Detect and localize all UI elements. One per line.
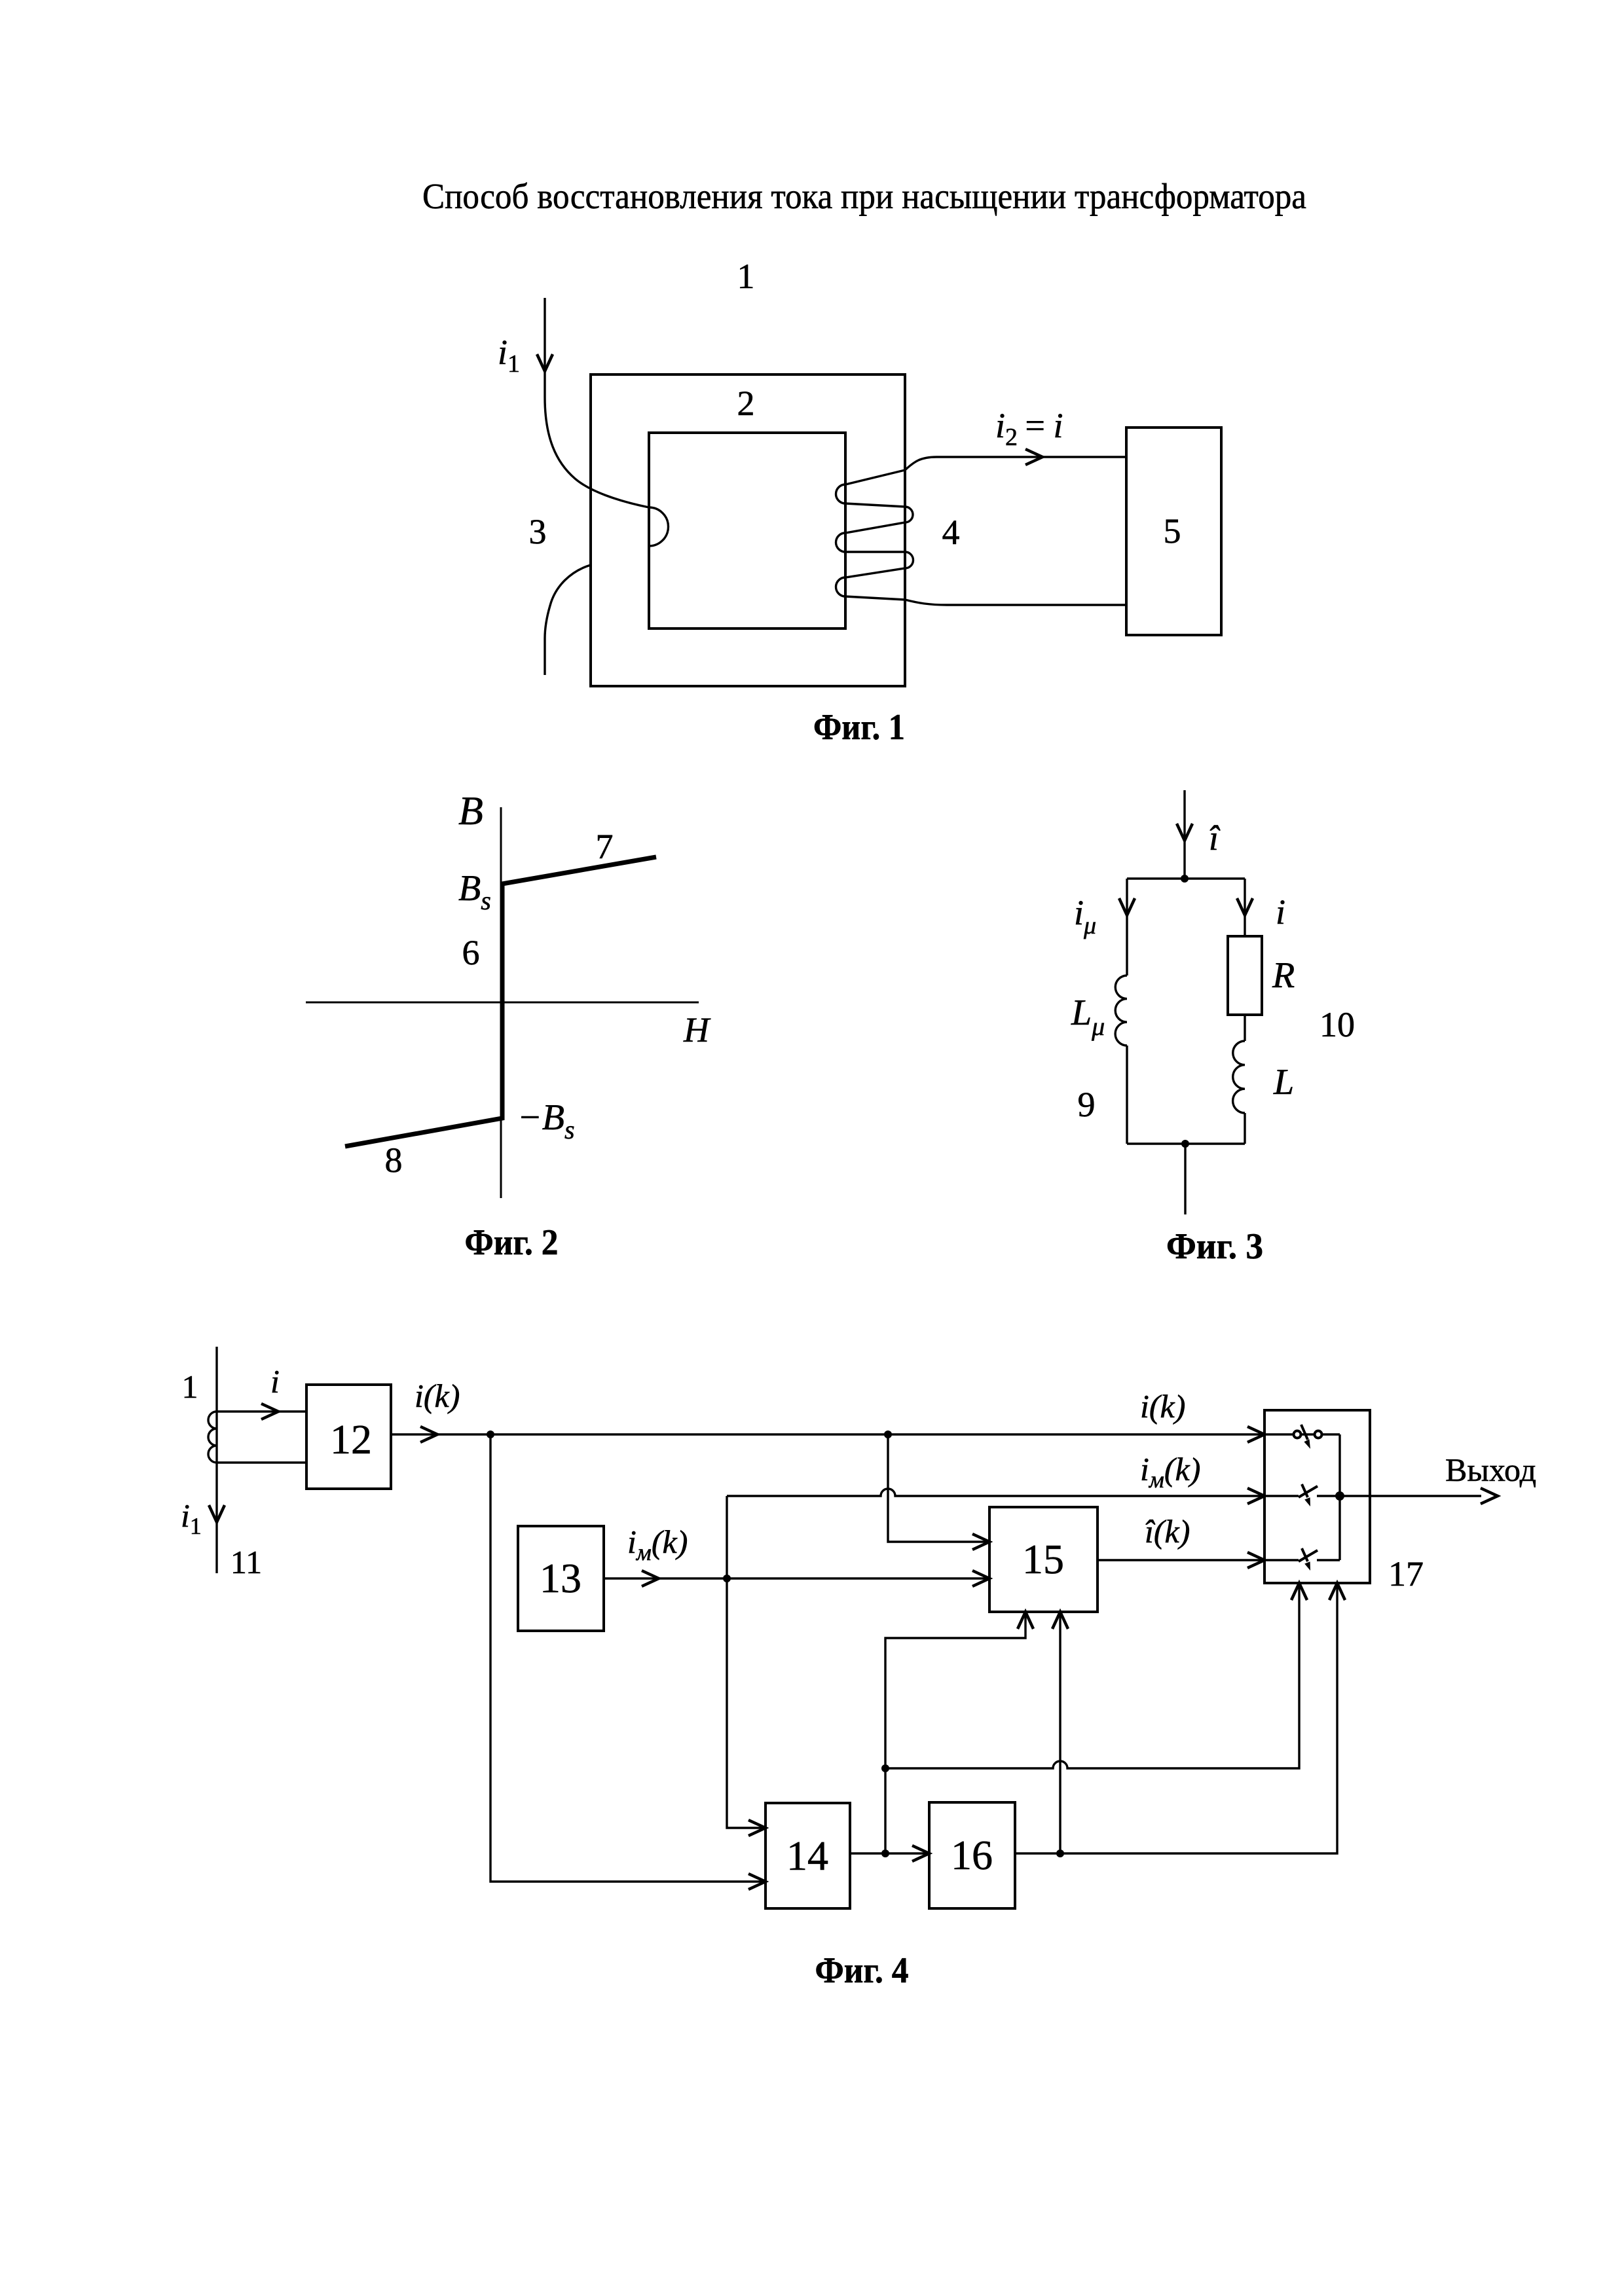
block 14 xyxy=(766,1803,850,1908)
wire coil to block12 bottom xyxy=(217,1461,306,1463)
svg-text:L: L xyxy=(1273,1062,1294,1102)
svg-text:Фиг. 4: Фиг. 4 xyxy=(815,1950,909,1991)
junction node bottom xyxy=(1181,1140,1189,1148)
wire top rail xyxy=(1127,877,1245,879)
svg-text:i1: i1 xyxy=(498,333,520,378)
axis H horizontal xyxy=(306,1002,699,1004)
axis B vertical xyxy=(500,807,502,1198)
switch S3 output xyxy=(1317,1559,1340,1561)
svg-text:4: 4 xyxy=(942,513,960,552)
svg-text:12: 12 xyxy=(330,1416,372,1463)
arrow after 12 xyxy=(420,1427,437,1442)
arrow into 17 top input xyxy=(1247,1427,1264,1442)
junction dot at 1356 xyxy=(884,1430,892,1438)
inductor L-mu (9) xyxy=(1115,975,1127,1046)
block 16 xyxy=(929,1802,1015,1908)
arrow i xyxy=(261,1404,278,1419)
wire vertical 749 down and into 14 lower input xyxy=(490,1434,766,1882)
svg-text:14: 14 xyxy=(786,1832,828,1879)
switch S3 stub xyxy=(1264,1559,1299,1561)
junction dot on vertical 1352 at 2831 xyxy=(881,1850,889,1857)
svg-text:i: i xyxy=(270,1363,280,1400)
wire bottom rail xyxy=(1127,1142,1245,1144)
junction node top xyxy=(1181,875,1189,883)
inductor L xyxy=(1233,1041,1245,1113)
wire Vyhod output xyxy=(1370,1495,1481,1497)
svg-text:Bs: Bs xyxy=(458,868,491,915)
resistor R xyxy=(1228,936,1262,1015)
svg-text:7: 7 xyxy=(596,827,614,866)
arrow into 14 upper input xyxy=(748,1820,766,1836)
arrow into 17 bottom input xyxy=(1247,1552,1264,1568)
arrow current i-mu xyxy=(1119,898,1135,915)
svg-text:2: 2 xyxy=(737,384,755,423)
svg-text:Фиг. 1: Фиг. 1 xyxy=(813,707,905,748)
internal bus of 17 xyxy=(1338,1434,1340,1560)
switch S1 wire xyxy=(1264,1433,1340,1435)
wire top stub xyxy=(1183,790,1185,879)
svg-text:B: B xyxy=(458,789,483,833)
wire 14 output to 16 xyxy=(850,1852,929,1854)
svg-text:R: R xyxy=(1272,955,1295,996)
wire 13 output to 15 lower input xyxy=(604,1577,989,1579)
svg-text:9: 9 xyxy=(1078,1085,1096,1124)
arrow current i xyxy=(1237,898,1253,915)
svg-text:1: 1 xyxy=(737,257,755,296)
winding 11 coil xyxy=(208,1412,217,1463)
junction dot at 749 xyxy=(487,1430,494,1438)
arrow into 17 bottom (right) xyxy=(1329,1583,1345,1600)
svg-text:Фиг. 3: Фиг. 3 xyxy=(1166,1226,1263,1267)
switch S2 stub xyxy=(1264,1495,1299,1497)
svg-text:−Bs: −Bs xyxy=(517,1097,575,1144)
wire coil to block12 top xyxy=(217,1410,306,1412)
switch S1 blade with arrow xyxy=(1301,1425,1308,1440)
wire right branch lower xyxy=(1244,1113,1246,1144)
svg-text:15: 15 xyxy=(1022,1536,1064,1582)
arrow into 15 bottom-right input xyxy=(1052,1612,1068,1629)
arrow on primary current i1 xyxy=(537,354,553,371)
svg-text:13: 13 xyxy=(540,1555,581,1601)
arrow into 16 xyxy=(912,1846,929,1861)
arrow into 15 lower input xyxy=(972,1571,989,1586)
arrow into 15 bottom-left input xyxy=(1018,1612,1033,1629)
wire right branch upper xyxy=(1244,879,1246,936)
switch S3 actuation arrow xyxy=(1302,1548,1308,1561)
svg-text:16: 16 xyxy=(951,1832,993,1878)
transformer core outer rectangle xyxy=(591,374,905,686)
svg-text:î(k): î(k) xyxy=(1145,1513,1190,1550)
arrow into 17 middle input xyxy=(1247,1488,1264,1504)
arrow after 13 xyxy=(642,1571,659,1586)
arrow into 17 bottom (left) xyxy=(1291,1583,1307,1600)
wire left branch lower xyxy=(1126,1046,1128,1144)
arrow Vyhod xyxy=(1481,1488,1498,1504)
arrow current i-hat xyxy=(1177,824,1192,841)
wire left branch upper xyxy=(1126,879,1128,975)
junction dot on bus xyxy=(1335,1491,1344,1501)
wire 16 output right and up into 17 bottom right xyxy=(1015,1583,1337,1853)
svg-text:H: H xyxy=(683,1010,711,1049)
junction dot 13 output xyxy=(723,1575,731,1582)
svg-text:6: 6 xyxy=(462,933,480,972)
switch S2 output xyxy=(1317,1495,1370,1497)
arrow into 15 upper input xyxy=(972,1534,989,1550)
switch S1 contacts xyxy=(1294,1431,1301,1438)
node 1 primary conductor xyxy=(215,1347,217,1573)
svg-text:10: 10 xyxy=(1319,1005,1355,1044)
wire im(k) line to 17 with hop xyxy=(727,1489,1264,1496)
block 17 xyxy=(1264,1410,1370,1583)
svg-text:i(k): i(k) xyxy=(415,1377,460,1414)
svg-text:i1: i1 xyxy=(181,1497,202,1539)
arrow i1 down xyxy=(209,1505,225,1522)
svg-text:iм(k): iм(k) xyxy=(1140,1451,1200,1493)
block 5 (load) xyxy=(1126,428,1221,635)
wire primary conductor lower segment xyxy=(545,565,591,675)
wire 15 output to 17 bottom input xyxy=(1098,1559,1264,1561)
svg-text:5: 5 xyxy=(1164,511,1181,551)
wire bottom stub xyxy=(1184,1144,1186,1214)
wire i(k) main line 12 to 17 xyxy=(391,1433,1264,1435)
svg-text:i2=i: i2=i xyxy=(995,406,1063,451)
junction dot on vertical 1352 at 2701 xyxy=(881,1764,889,1772)
block 13 xyxy=(518,1526,604,1631)
wire primary conductor upper segment xyxy=(545,298,669,546)
svg-text:i: i xyxy=(1276,892,1285,932)
wire between R and L xyxy=(1244,1015,1246,1041)
switch S2 actuation arrow xyxy=(1302,1484,1308,1497)
svg-text:Способ восстановления тока при: Способ восстановления тока при насыщении… xyxy=(422,176,1306,216)
wire horizontal 2701 with hop to 17 bottom left input xyxy=(885,1583,1299,1768)
svg-text:11: 11 xyxy=(231,1544,262,1580)
svg-text:3: 3 xyxy=(529,512,547,551)
arrow i2 on secondary output wire xyxy=(1025,449,1043,465)
block 12 xyxy=(306,1385,391,1489)
junction dot 16 output xyxy=(1056,1850,1064,1857)
svg-text:iм(k): iм(k) xyxy=(627,1523,688,1565)
svg-text:î: î xyxy=(1209,818,1221,858)
svg-text:8: 8 xyxy=(385,1140,403,1180)
svg-text:Выход: Выход xyxy=(1445,1451,1536,1488)
svg-text:17: 17 xyxy=(1388,1554,1424,1594)
arrow into 14 lower input xyxy=(748,1874,766,1889)
transformer core inner rectangle xyxy=(649,433,845,629)
wire vertical 1619 from 16 output junction to 15 bottom-right xyxy=(1059,1612,1061,1853)
switch S2 blade xyxy=(1299,1486,1318,1497)
svg-text:Lμ: Lμ xyxy=(1071,993,1105,1041)
svg-text:Фиг. 2: Фиг. 2 xyxy=(465,1222,559,1263)
secondary winding 4 with connecting wires xyxy=(836,457,1127,605)
svg-text:i(k): i(k) xyxy=(1140,1388,1185,1425)
wire from 14-16 junction up into 15 bottom-left xyxy=(885,1612,1025,1853)
switch S3 blade xyxy=(1299,1550,1318,1561)
svg-text:iμ: iμ xyxy=(1074,893,1096,939)
wire vertical 1356 to 15 upper input xyxy=(888,1434,989,1542)
svg-text:1: 1 xyxy=(182,1368,198,1405)
magnetization curve 7-6-8 xyxy=(345,857,656,1146)
block 15 xyxy=(989,1507,1098,1612)
wire vertical 1110 down to 14 upper input xyxy=(727,1496,766,1828)
